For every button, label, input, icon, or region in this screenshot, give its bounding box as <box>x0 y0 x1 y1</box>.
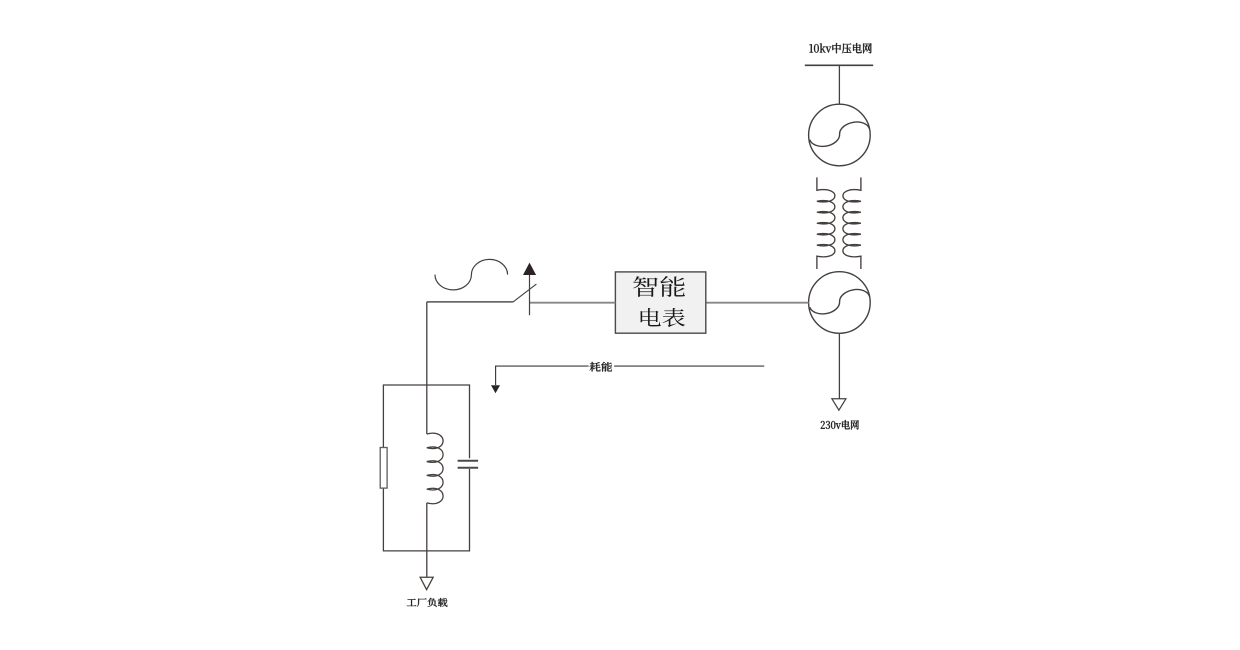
label: 耗能 (energy loss) <box>590 362 613 372</box>
switch S1: fixed-side wire <box>427 301 513 303</box>
label: 230v grid <box>821 420 859 430</box>
switch S1: blade (diagonal) <box>513 284 537 302</box>
load enclosure rectangle <box>383 385 469 551</box>
capacitor C (right branch) plates <box>458 461 479 468</box>
AC source G2 (230v side) <box>809 272 871 334</box>
wire: G2 to smart meter <box>706 302 809 304</box>
inductor L (center branch) <box>427 433 443 504</box>
open arrowhead: factory load terminal <box>420 577 433 589</box>
wire: inductor bottom to arrow <box>426 503 428 577</box>
wire: bus to source G1 <box>838 65 840 104</box>
wire: G2 down to 230v arrow <box>838 333 840 398</box>
label: factory load <box>407 598 448 607</box>
label: 10kv medium-voltage grid <box>809 43 871 53</box>
switch S1: actuator shaft <box>529 274 531 315</box>
annotation line: energy-consumption left segment <box>496 366 589 385</box>
switch S1: solid up arrowhead <box>523 263 536 275</box>
smart meter box U1 <box>615 272 705 333</box>
label: smart meter line1 智能 <box>633 276 685 297</box>
bus bar (10kv grid) <box>805 64 873 66</box>
annotation solid down arrowhead <box>491 385 500 393</box>
transformer T1 secondary winding <box>843 177 861 269</box>
AC source G1 (10kv side) <box>809 104 871 166</box>
annotation line: energy-consumption right segment <box>614 365 764 367</box>
sine marker above switch <box>435 259 508 289</box>
label: smart meter line2 电表 <box>641 308 685 327</box>
wire: switch corner down to load <box>426 302 428 434</box>
open arrowhead: 230v grid terminal <box>832 399 846 410</box>
transformer T1 primary winding <box>817 177 835 269</box>
wire: smart meter to switch <box>530 302 616 304</box>
resistor R (left branch) <box>380 448 387 489</box>
